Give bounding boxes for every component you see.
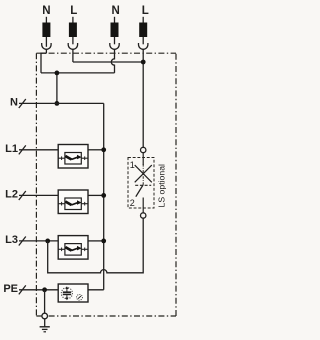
wire: N jog from terminal X1 down to N tie <box>41 53 46 73</box>
terminal X3 (N) pin, clamp and socket <box>110 17 119 49</box>
ground symbol <box>40 327 50 332</box>
node: F3 to N rail <box>101 239 106 244</box>
svg-text:LS optional: LS optional <box>157 164 167 208</box>
terminal X1 (N) pin, clamp and socket <box>42 17 51 53</box>
svg-text:N: N <box>112 5 120 17</box>
conductor slash N <box>19 99 26 108</box>
earth terminal (circle on boundary) <box>42 313 48 319</box>
circuit breaker Q1 (LS optional, dashed outline) <box>128 153 154 213</box>
node: PE junction <box>42 287 47 292</box>
svg-text:L2: L2 <box>5 189 18 201</box>
svg-text:N: N <box>42 5 50 17</box>
svg-text:PE: PE <box>3 283 18 295</box>
terminal X2 (L) pin, clamp and socket <box>68 17 77 62</box>
node: N tie junction <box>55 71 60 76</box>
conductor slash L1 <box>19 145 26 154</box>
wire: earth stem <box>44 319 46 327</box>
wire: PE to spark gap F4 <box>19 289 58 291</box>
wire: varistor F2 to N rail <box>88 194 104 196</box>
varistor module F2 <box>58 190 88 214</box>
wire: N tie bar (X1 to X3) <box>41 72 115 74</box>
varistor module F1 <box>58 145 88 169</box>
wire: terminal X3 drop with hop over L-tie <box>111 49 114 73</box>
wire: N bus <box>19 102 104 104</box>
node: N bus junction <box>55 101 60 106</box>
svg-text:L: L <box>142 5 149 17</box>
spark gap module F4 (N-PE) <box>58 284 88 302</box>
wire: breaker return with hop over N rail <box>48 218 144 273</box>
wire: varistor F1 to N rail <box>88 149 104 151</box>
circuit breaker Q1 terminal circle (top, pin 1) <box>141 147 146 152</box>
svg-text:L1: L1 <box>5 143 18 155</box>
wire: L tie bar (X2 to X4) <box>73 61 143 63</box>
node: F2 to N rail <box>101 193 106 198</box>
varistor module F3 <box>58 236 88 260</box>
node: F1 to N rail <box>101 147 106 152</box>
wire: PE drop to earth terminal <box>44 290 46 314</box>
conductor slash PE <box>19 285 26 294</box>
wire: varistor F3 to N rail <box>88 240 104 242</box>
wire: N tie drop to N bus <box>56 73 58 104</box>
wire: L2 to varistor F2 <box>19 194 58 196</box>
svg-text:L: L <box>70 5 77 17</box>
svg-text:L3: L3 <box>5 234 18 246</box>
svg-text:1: 1 <box>130 160 135 170</box>
wire: L3 to varistor F3 <box>19 240 58 242</box>
svg-text:N: N <box>10 97 18 109</box>
wire: L1 to varistor F1 <box>19 149 58 151</box>
conductor slash L2 <box>19 191 26 200</box>
svg-text:2: 2 <box>130 198 135 208</box>
node: L tie to breaker feed <box>141 60 146 65</box>
enclosure boundary (dash-dot) <box>36 53 176 316</box>
conductor slash L3 <box>19 237 26 246</box>
node: L3 tap for breaker return <box>45 239 50 244</box>
terminal X4 (L) pin, clamp and socket <box>139 17 148 148</box>
wire: N rail (vertical) <box>88 103 104 289</box>
circuit breaker Q1 terminal circle (bottom, pin 2) <box>141 213 146 218</box>
